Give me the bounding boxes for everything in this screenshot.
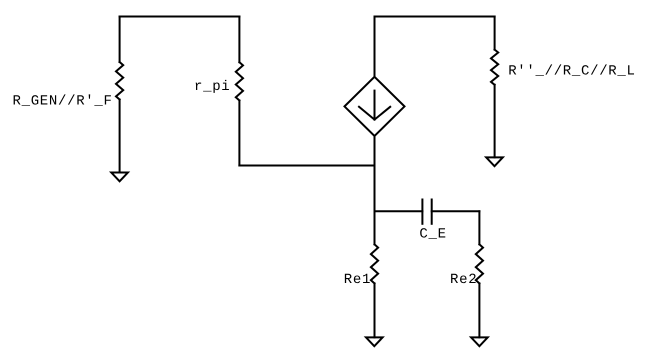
wire top-right from current source to R''	[375, 16, 495, 18]
svg-text:Re2: Re2	[450, 272, 477, 288]
svg-text:r_pi: r_pi	[194, 79, 230, 95]
resistor R''_//R_C//R_L	[491, 50, 498, 85]
resistor R_GEN//R'_F	[116, 62, 123, 100]
wire Re2 top lead	[478, 211, 480, 244]
arrow of current source	[359, 91, 390, 120]
svg-text:Re1: Re1	[344, 272, 371, 288]
resistor r_pi	[236, 62, 243, 100]
wire top-left from R_GEN to r_pi	[120, 16, 240, 18]
wire R'' bottom lead	[494, 85, 496, 158]
ground below Re1	[366, 337, 383, 346]
resistor Re1	[371, 244, 378, 283]
wire R_GEN top lead	[119, 17, 121, 63]
wire R'' top lead	[494, 17, 496, 50]
wire Re2 bottom lead	[478, 283, 480, 337]
ground below Re2	[471, 337, 488, 346]
wire from r_pi to node E	[239, 165, 374, 167]
wire to C_E left plate	[375, 210, 423, 212]
svg-text:R''_//R_C//R_L: R''_//R_C//R_L	[508, 63, 635, 79]
wire r_pi top lead	[238, 17, 240, 63]
svg-text:C_E: C_E	[419, 227, 446, 243]
wire from C_E right plate to Re2	[432, 210, 480, 212]
ground below R''	[486, 157, 503, 166]
wire node E down to C_E branch and Re1	[374, 166, 376, 245]
wire r_pi bottom lead	[238, 101, 240, 166]
ground below R_GEN	[111, 173, 128, 182]
resistor Re2	[476, 244, 483, 283]
capacitor C_E	[422, 200, 431, 224]
wire current source bottom lead to node E	[374, 136, 376, 166]
dependent current source G1 diamond	[345, 77, 405, 136]
wire current source top lead	[374, 17, 376, 77]
wire Re1 bottom lead	[374, 283, 376, 337]
wire R_GEN bottom lead	[119, 100, 121, 173]
svg-text:R_GEN//R'_F: R_GEN//R'_F	[13, 93, 113, 109]
